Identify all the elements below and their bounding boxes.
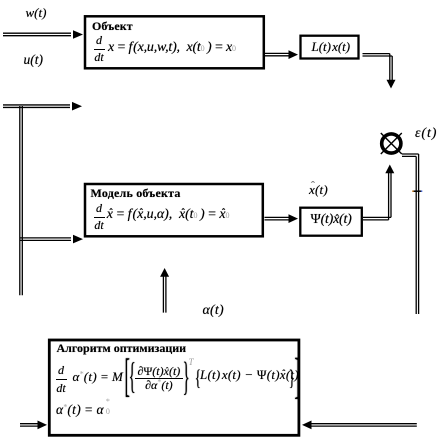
algorithm eq: inner fraction	[135, 365, 183, 392]
wire u(t) input	[3, 102, 82, 111]
box Psi(t)x(t)	[300, 208, 362, 236]
box Алгоритм title	[57, 342, 187, 354]
label alpha(t)	[203, 304, 224, 318]
box Модель equation text	[107, 208, 230, 222]
wire into model box	[20, 235, 83, 244]
algorithm eq: closing } of L-term	[289, 366, 295, 388]
comparator circle with X	[381, 133, 402, 154]
box Модель объекта	[85, 184, 263, 236]
box Объект title	[92, 20, 133, 32]
algorithm eq: superscript T	[189, 358, 194, 367]
algorithm eq: initial condition	[56, 401, 113, 417]
label u(t)	[24, 53, 44, 67]
algorithm eq: tall {	[128, 357, 135, 394]
algorithm eq: opening { of L-term	[195, 366, 201, 388]
wire L box right then down arrow	[363, 54, 396, 89]
wire model to Psi box	[265, 214, 299, 223]
wire alpha feedback up arrow	[160, 268, 169, 313]
wire u(t) branch down	[20, 106, 23, 295]
algorithm eq: alpha*(t)=M	[73, 370, 124, 383]
algorithm eq: fraction d/dt	[56, 364, 67, 394]
box Объект equation text	[108, 41, 236, 55]
label x^(t)	[309, 183, 328, 196]
wire Psi box right then up arrow to circle	[363, 165, 394, 220]
wire w(t) input	[3, 30, 83, 39]
wire object to L box	[265, 50, 298, 59]
box L(t)x(t) label	[312, 40, 351, 53]
box Объект	[85, 16, 264, 68]
box Объект fraction d/dt	[94, 34, 105, 64]
wire right input to algorithm box	[302, 421, 417, 430]
box L(t)x(t)	[301, 36, 359, 59]
box Алгоритм оптимизации	[49, 340, 299, 435]
algorithm eq: L(t)x(t) - Psi(t)x(t)	[200, 368, 299, 381]
algorithm eq: tall ]	[295, 350, 300, 400]
box Модель fraction d/dt	[94, 202, 105, 232]
tick on right wire	[412, 190, 422, 192]
label w(t)	[26, 6, 47, 19]
wire circle right then down	[402, 154, 419, 314]
label epsilon(t)	[415, 127, 437, 141]
algorithm eq: tall }	[183, 356, 190, 397]
wire left input to algorithm box	[20, 421, 47, 430]
algorithm eq: tall [	[125, 351, 130, 398]
box Модель объекта title	[91, 187, 181, 199]
box Psi label	[311, 213, 352, 227]
